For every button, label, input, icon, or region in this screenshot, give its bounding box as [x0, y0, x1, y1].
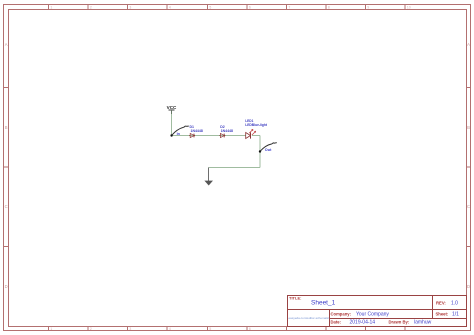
wire bottom horizontal to ground stem — [209, 167, 261, 169]
svg-text:C: C — [5, 204, 8, 209]
svg-text:4: 4 — [169, 5, 171, 9]
voltage probe In — [172, 126, 189, 136]
svg-text:Company:: Company: — [331, 312, 351, 317]
svg-text:Drawn By:: Drawn By: — [389, 320, 410, 325]
wire node A to LED1 anode — [172, 135, 246, 137]
frame zone numbers top — [50, 5, 410, 9]
svg-text:10: 10 — [407, 5, 411, 9]
svg-text:2019-04-14: 2019-04-14 — [350, 320, 376, 326]
diode D2 — [220, 134, 226, 138]
wire LED1 cathode to corner — [252, 135, 260, 137]
title block outline — [288, 296, 467, 327]
diode D1 — [189, 134, 195, 138]
svg-text:easyeda.com/editor-schematic: easyeda.com/editor-schematic — [289, 316, 330, 320]
svg-text:D: D — [5, 284, 8, 289]
title block column divider rev — [432, 296, 434, 319]
svg-text:1.0: 1.0 — [451, 301, 458, 307]
svg-text:Your Company: Your Company — [356, 312, 389, 318]
svg-text:2: 2 — [90, 327, 92, 331]
svg-text:Sheet_1: Sheet_1 — [311, 300, 336, 307]
svg-text:LEDBlue-light: LEDBlue-light — [245, 123, 268, 127]
node A junction dot — [170, 134, 172, 136]
svg-text:1/1: 1/1 — [452, 312, 459, 318]
svg-text:1N4448: 1N4448 — [221, 129, 233, 133]
svg-text:1: 1 — [50, 5, 52, 9]
svg-text:Sheet:: Sheet: — [436, 312, 449, 317]
svg-text:Out: Out — [265, 148, 272, 152]
svg-text:6: 6 — [249, 5, 251, 9]
svg-text:1N4448: 1N4448 — [191, 129, 203, 133]
title block row divider 1 — [288, 309, 467, 311]
svg-text:Date:: Date: — [331, 320, 341, 325]
frame ticks right — [467, 88, 471, 247]
frame ticks top — [49, 5, 406, 10]
title block row divider 2 — [330, 318, 467, 320]
frame ticks bottom — [49, 327, 406, 331]
voltage probe Out — [260, 143, 277, 152]
wire VCC stem to node A — [171, 112, 173, 136]
svg-text:3: 3 — [129, 327, 131, 331]
power flag VCC — [167, 105, 177, 114]
node B junction dot — [259, 150, 261, 152]
svg-text:2: 2 — [90, 5, 92, 9]
frame ticks left — [4, 88, 9, 247]
ground — [204, 168, 213, 186]
svg-text:TITLE:: TITLE: — [289, 296, 301, 301]
svg-text:5: 5 — [209, 5, 211, 9]
svg-text:VCC: VCC — [167, 105, 177, 110]
LED LED1 — [246, 129, 256, 138]
wire right vertical through node B — [259, 136, 261, 168]
svg-text:7: 7 — [288, 5, 290, 9]
frame zone numbers bottom — [50, 327, 251, 331]
svg-text:5: 5 — [209, 327, 211, 331]
svg-text:REV:: REV: — [436, 301, 446, 306]
svg-text:C: C — [467, 204, 470, 209]
svg-text:B: B — [5, 125, 8, 130]
svg-text:lamhuw: lamhuw — [414, 320, 432, 326]
svg-text:8: 8 — [328, 5, 330, 9]
title block column divider url/company — [329, 310, 331, 327]
svg-text:A: A — [467, 42, 470, 47]
LED light arrows — [249, 129, 256, 135]
svg-text:B: B — [467, 125, 470, 130]
svg-text:A: A — [5, 42, 8, 47]
svg-text:1: 1 — [50, 327, 52, 331]
svg-text:6: 6 — [249, 327, 251, 331]
svg-text:4: 4 — [169, 327, 171, 331]
svg-text:3: 3 — [129, 5, 131, 9]
svg-text:9: 9 — [367, 5, 369, 9]
svg-text:D: D — [467, 284, 470, 289]
frame zone letters right — [467, 42, 470, 289]
frame zone letters left — [5, 42, 8, 289]
